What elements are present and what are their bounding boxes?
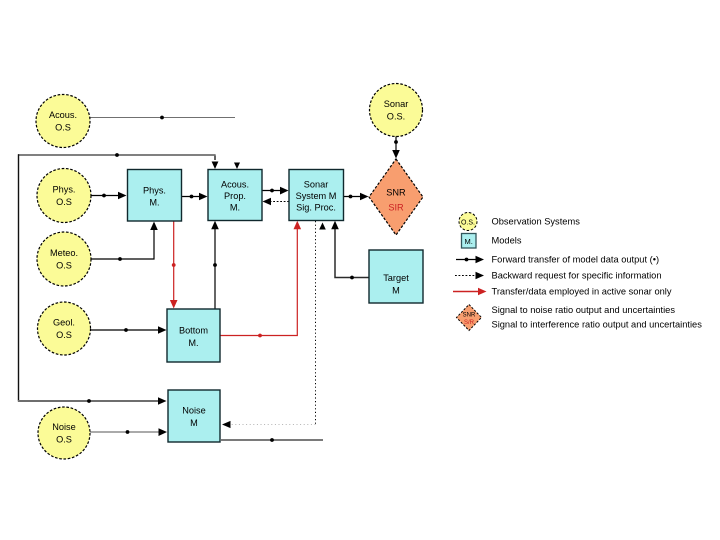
svg-text:M.: M.: [230, 203, 240, 213]
wire (dotted): Sonar System M down to Noise M, backward request: [222, 221, 316, 428]
observation system circle: Geol. O.S.: [38, 302, 91, 355]
arrowhead (detached) into Sonar System M bottom: [319, 223, 326, 230]
wire: Phys M to Acous Prop M (forward): [182, 193, 208, 201]
svg-text:SIR: SIR: [388, 203, 404, 213]
wire: left loop from Acous Prop M top, down left side, to Noise M: [18, 153, 218, 405]
svg-text:Sonar: Sonar: [304, 180, 329, 190]
wire: Phys O.S. to Phys M: [91, 192, 127, 200]
legend icon: red transfer arrow: [453, 288, 487, 296]
wire: Bottom M up to Acous Prop M: [211, 221, 219, 309]
svg-text:M.: M.: [188, 338, 198, 348]
svg-text:O.S: O.S: [56, 261, 72, 271]
wire: Sonar System M to Acous Prop M (backward dashed): [263, 198, 290, 206]
svg-text:Forward transfer of model data: Forward transfer of model data output (•…: [492, 255, 660, 265]
svg-text:Sig. Proc.: Sig. Proc.: [296, 203, 336, 213]
wire (red): Phys M down to Bottom M, active sonar only: [170, 221, 178, 309]
svg-text:Transfer/data employed in acti: Transfer/data employed in active sonar o…: [492, 287, 672, 297]
svg-text:Acous.: Acous.: [221, 180, 249, 190]
model box: Bottom M.: [167, 309, 220, 362]
svg-text:Observation Systems: Observation Systems: [492, 217, 581, 227]
svg-text:M: M: [190, 418, 198, 428]
svg-text:Sonar: Sonar: [384, 99, 409, 109]
legend icon: model square: [462, 234, 477, 249]
svg-text:M.: M.: [465, 237, 473, 246]
model box: Noise M: [168, 390, 220, 442]
legend icon: SNR/SIR diamond: [457, 305, 482, 331]
model box: Sonar System M Sig. Proc.: [289, 170, 344, 221]
svg-text:O.S.: O.S.: [387, 112, 405, 122]
svg-text:Phys.: Phys.: [53, 185, 76, 195]
model box: Phys M.: [128, 170, 182, 222]
svg-text:Phys.: Phys.: [143, 186, 166, 196]
wire: Target M to Sonar System M bottom: [331, 221, 369, 280]
observation system circle: Noise O.S.: [38, 407, 90, 459]
SNR / SIR diamond: [369, 159, 423, 235]
wire: Acous O.S. output line: [90, 116, 235, 120]
arrowhead (detached) into Acous. Prop. M. top: [234, 163, 240, 170]
svg-text:Signal to noise ratio output a: Signal to noise ratio output and uncerta…: [492, 305, 676, 315]
svg-text:O.S: O.S: [56, 330, 72, 340]
svg-text:Geol.: Geol.: [53, 318, 75, 328]
svg-text:Backward request for specific: Backward request for specific informatio…: [492, 271, 662, 281]
wire: Noise O.S. to Noise M: [90, 428, 167, 436]
svg-text:Noise: Noise: [182, 406, 206, 416]
svg-text:O.S: O.S: [56, 197, 72, 207]
observation system circle: Phys. O.S.: [37, 169, 91, 223]
svg-text:Signal to interference ratio o: Signal to interference ratio output and …: [492, 320, 703, 330]
svg-text:Prop.: Prop.: [224, 191, 246, 201]
svg-text:Acous.: Acous.: [49, 110, 77, 120]
svg-text:Models: Models: [492, 236, 522, 246]
svg-text:M.: M.: [149, 198, 159, 208]
wire (red): Bottom M right, up into Sonar System M, active sonar only: [221, 221, 302, 338]
wire: Acous Prop M to Sonar System M (forward): [262, 187, 289, 195]
wire: Geol O.S. to Bottom M: [91, 326, 167, 334]
svg-text:SNR: SNR: [386, 188, 406, 198]
svg-text:S/R: S/R: [464, 320, 475, 326]
wire (gray): Noise M output line to the right: [221, 438, 323, 442]
svg-text:Noise: Noise: [52, 422, 76, 432]
svg-text:O.S: O.S: [55, 123, 71, 133]
svg-text:Bottom: Bottom: [179, 326, 208, 336]
wire: Meteo O.S. to Phys M bottom: [91, 222, 158, 261]
svg-text:M: M: [392, 286, 400, 296]
svg-text:SNR: SNR: [463, 313, 476, 319]
observation system circle: Sonar O.S.: [370, 84, 423, 137]
legend icon: backward request dashed arrow: [455, 272, 484, 280]
svg-text:Meteo.: Meteo.: [50, 248, 78, 258]
wire: Sonar O.S. down to SNR diamond: [392, 137, 400, 159]
svg-text:O.S: O.S: [56, 435, 72, 445]
legend icon: observation system circle: [459, 213, 477, 231]
wire: Sonar System M to SNR diamond: [344, 193, 369, 201]
observation system circle: Acous. O.S.: [36, 95, 90, 148]
svg-text:System M: System M: [296, 191, 337, 201]
svg-text:O.S.: O.S.: [461, 220, 475, 227]
observation system circle: Meteo. O.S.: [37, 232, 91, 286]
model box: Acous. Prop. M.: [208, 170, 262, 221]
legend icon: forward transfer arrow: [456, 256, 484, 264]
svg-text:Target: Target: [383, 273, 409, 283]
model box: Target M: [369, 250, 423, 303]
